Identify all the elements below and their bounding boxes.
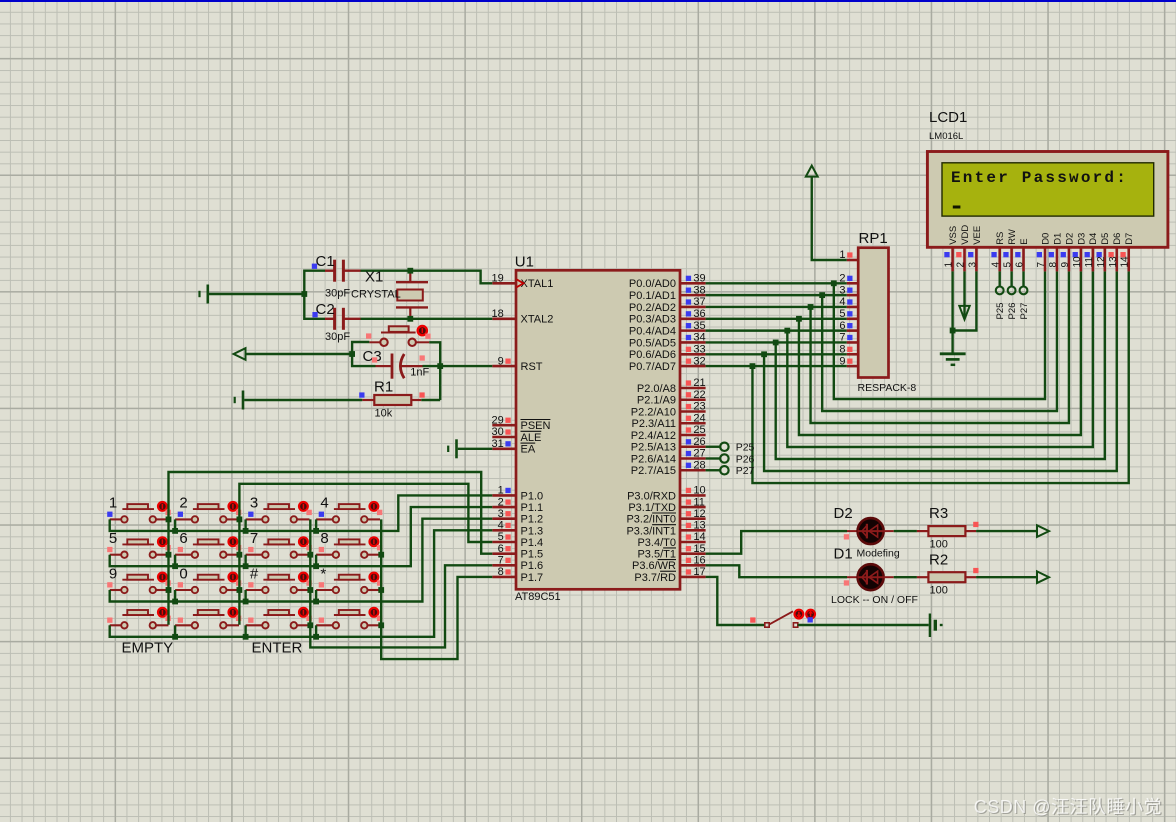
U1 pin 16 P3.6 [632,555,706,573]
wire button drop [174,519,176,531]
svg-text:5: 5 [1003,262,1014,268]
junction [237,552,243,558]
junction [307,552,313,558]
wire P0.0 to RP1 pin 2 [706,282,847,284]
LED D1 [831,546,918,607]
svg-text:P25: P25 [995,303,1006,320]
junction [407,268,413,274]
push button 2 (keypad row 1 col 2) [175,495,241,523]
battery cell [930,614,943,638]
U1 pin 22 P2.1 [637,389,706,407]
svg-text:D7: D7 [1124,233,1135,245]
svg-text:3: 3 [967,262,978,268]
svg-text:2: 2 [956,262,967,268]
wire button drop [315,590,317,602]
svg-text:P27: P27 [736,465,755,477]
svg-text:2: 2 [498,496,504,508]
push button K3 (keypad row 4 col 3) [246,608,312,629]
RP1 pin 6 [839,320,858,332]
wire D1 to R2 [884,576,894,578]
wire button drop [315,555,317,567]
junction [773,340,779,346]
svg-text:VSS: VSS [948,226,959,245]
wire P0.1 to RP1 pin 3 [706,294,847,296]
terminal arrow (right) [1037,525,1049,537]
resistor R2 100 [917,572,976,582]
U1 pin 10 P3.0 [627,485,706,503]
wire LCD VSS to ground [951,271,953,352]
svg-text:R1: R1 [374,379,393,396]
svg-text:19: 19 [492,273,504,285]
wire button drop [174,625,176,637]
svg-text:P3.4/T0: P3.4/T0 [637,537,676,549]
push button K1 (keypad row 4 col 1) [107,608,171,629]
junction [437,363,443,369]
U1 pin 29 PSEN [492,414,551,432]
junction [172,599,178,605]
svg-text:1: 1 [498,485,504,497]
svg-text:39: 39 [693,273,705,285]
wire P0.1 to LCD D1 [822,271,1057,411]
svg-text:P1.0: P1.0 [521,490,544,502]
svg-text:PSEN: PSEN [521,420,551,432]
U1 pin 1 P1.0 [492,485,543,503]
resistor R1 [362,395,421,405]
U1 pin 27 P2.6 [631,448,706,466]
LCD pin 2 VDD [956,225,971,272]
svg-text:P0.4/AD4: P0.4/AD4 [629,326,676,338]
wire P0.3 to LCD D3 [799,271,1081,435]
svg-text:D1: D1 [834,546,853,563]
junction [237,517,243,523]
svg-text:11: 11 [693,496,704,508]
svg-text:XTAL2: XTAL2 [521,314,554,326]
U1 pin 8 P1.7 [492,566,543,584]
U1 pin 9 RST [492,355,542,373]
wire keypad column 1 rail to U1 pin 6 [169,472,493,625]
svg-text:P2.3/A11: P2.3/A11 [632,418,676,430]
RP1 pin 5 [839,308,858,320]
U1 pin 12 P3.2 [626,508,705,526]
junction [243,599,249,605]
wire P0.4 to RP1 pin 6 [706,329,847,331]
ground (LCD) [940,354,966,365]
wire C1 to U1 XTAL1 pin 19 [361,271,493,284]
wire P2.6 to terminal P26 [706,457,721,459]
push button 1 (keypad row 1 col 1) [107,495,171,523]
U1 pin 13 P3.3 [626,520,705,538]
wire LCD pin 4 to node P25 [999,271,1001,286]
svg-text:6: 6 [498,543,504,555]
wire LCD pin 6 to node P27 [1022,271,1024,286]
svg-text:RW: RW [1007,229,1018,245]
svg-text:24: 24 [693,412,705,424]
svg-text:15: 15 [693,543,705,555]
svg-text:RS: RS [995,232,1006,245]
svg-text:2: 2 [179,495,187,512]
svg-text:P0.7/AD7: P0.7/AD7 [629,361,676,373]
svg-text:25: 25 [693,424,705,436]
wire keypad row 4 rail to U1 pin 4 [110,530,493,636]
svg-text:23: 23 [693,401,705,413]
U1 pin 18 XTAL2 [492,308,554,326]
U1 pin 23 P2.2 [631,401,706,419]
reset push button [366,326,431,346]
junction [378,552,384,558]
svg-text:LM016L: LM016L [929,131,963,142]
svg-text:CRYSTAL: CRYSTAL [351,289,401,301]
LCD pin 11 D4 [1084,233,1099,272]
svg-text:3: 3 [498,508,504,520]
svg-text:XTAL1: XTAL1 [521,278,554,290]
wire button drop [244,519,246,531]
svg-text:D0: D0 [1040,233,1051,245]
crystal X1 [351,269,428,319]
svg-text:8: 8 [320,530,328,547]
junction [166,587,172,593]
svg-text:6: 6 [1015,262,1026,268]
svg-text:LCD1: LCD1 [929,109,967,126]
wire reset button left rail [352,342,375,366]
svg-text:6: 6 [179,530,187,547]
svg-text:R3: R3 [929,505,948,522]
svg-text:D5: D5 [1100,233,1111,245]
wire keypad row 3 rail to U1 pin 3 [110,519,493,602]
junction [243,528,249,534]
wire R1 to reset rail [421,399,440,401]
svg-text:EA: EA [521,444,536,456]
svg-text:P1.2: P1.2 [521,514,544,526]
U1 pin 38 P0.1 [629,284,706,302]
wire keypad row 2 rail to U1 pin 2 [110,507,493,566]
wire U1 pin 15 to LED D2 [706,531,847,554]
RP1 pin 4 [839,296,858,308]
wire P0.7 to RP1 pin 9 [706,365,847,367]
svg-text:P2.2/A10: P2.2/A10 [631,406,676,418]
svg-text:LOCK -- ON / OFF: LOCK -- ON / OFF [831,594,918,606]
LCD cursor [953,206,961,209]
wire button drop [174,555,176,567]
U1 pin 37 P0.2 [629,296,706,314]
svg-text:D1: D1 [1052,233,1063,245]
wire P0.4 to LCD D4 [787,271,1093,447]
resistor R3 100 [917,526,976,536]
svg-text:P0.0/AD0: P0.0/AD0 [629,278,676,290]
junction [307,587,313,593]
svg-text:13: 13 [693,520,705,532]
ground (crystal caps) [200,285,208,304]
svg-text:30pF: 30pF [325,331,350,343]
push button 7 (keypad row 2 col 3) [246,530,312,558]
svg-text:1nF: 1nF [410,367,429,379]
svg-text:4: 4 [498,520,504,532]
svg-text:E: E [1019,238,1030,244]
svg-text:P26: P26 [736,453,755,465]
wire ground to C1/C2 rail [209,293,304,295]
junction [172,634,178,640]
junction [166,517,172,523]
wire reset terminal arrow [246,353,353,355]
wire LCD VEE to ground rail [953,271,977,330]
wire button drop [174,590,176,602]
capacitor C2 [312,301,360,343]
svg-text:36: 36 [693,308,705,320]
U1 pin 35 P0.4 [629,320,706,338]
LCD pin 3 VEE [967,226,982,272]
svg-text:P2.0/A8: P2.0/A8 [637,383,676,395]
svg-text:P2.7/A15: P2.7/A15 [631,465,676,477]
svg-text:1: 1 [944,262,955,268]
svg-text:14: 14 [693,531,705,543]
svg-text:17: 17 [693,566,705,578]
node P26 [720,453,754,465]
svg-text:5: 5 [109,530,117,547]
junction [243,634,249,640]
svg-text:P1.4: P1.4 [521,537,544,549]
U1 pin 30 ALE [492,426,542,444]
junction [313,634,319,640]
IC U1 AT89C51 microcontroller [515,254,680,604]
svg-text:RESPACK-8: RESPACK-8 [858,382,917,394]
node P26 [1007,287,1018,320]
LCD pin 13 D6 [1108,233,1123,272]
svg-text:P26: P26 [1007,303,1018,320]
svg-text:P1.6: P1.6 [521,560,544,572]
svg-text:26: 26 [693,436,705,448]
wire button drop [315,625,317,637]
svg-text:9: 9 [109,565,117,582]
push button 4 (keypad row 1 col 4) [316,495,382,523]
svg-text:D3: D3 [1076,233,1087,245]
capacitor C1 [312,253,361,300]
push button * (keypad row 3 col 4) [316,565,382,593]
wire C1/C2 left rail [304,271,325,319]
svg-text:#: # [250,565,259,582]
wire button drop [244,625,246,637]
svg-text:100: 100 [930,539,948,551]
junction [313,563,319,569]
svg-text:18: 18 [492,308,504,320]
RP1 pin 1 [839,249,858,261]
U1 pin 19 XTAL1 [492,273,554,291]
wire D2 to R3 [884,530,894,532]
svg-text:1: 1 [109,495,117,512]
junction [166,552,172,558]
node P25 [720,442,754,454]
LCD pin 9 D2 [1060,233,1075,272]
svg-text:12: 12 [693,508,705,520]
wire P0.6 to RP1 pin 8 [706,353,847,355]
svg-text:P1.1: P1.1 [521,502,544,514]
U1 pin 21 P2.0 [637,377,706,395]
junction [808,304,814,310]
LCD LCD1 LM016L [927,109,1168,247]
wire P0.3 to RP1 pin 5 [706,318,847,320]
wire LCD pin 5 to node P26 [1010,271,1012,286]
svg-text:C2: C2 [316,301,335,318]
junction [761,351,767,357]
svg-text:*: * [320,565,326,582]
wire button drop [244,555,246,567]
junction [243,563,249,569]
svg-text:D2: D2 [1064,233,1075,245]
terminal arrow (right) [1037,571,1049,583]
svg-text:D4: D4 [1088,233,1099,245]
wire button drop [315,519,317,531]
RP1 pin 8 [839,343,858,355]
junction [950,328,956,334]
U1 pin 34 P0.5 [629,332,706,350]
junction [784,328,790,334]
U1 pin 5 P1.4 [492,531,543,549]
push button 5 (keypad row 2 col 1) [107,530,171,558]
svg-text:31: 31 [492,438,504,450]
svg-text:VEE: VEE [972,226,983,245]
svg-text:16: 16 [693,555,705,567]
junction [172,528,178,534]
junction [750,363,756,369]
wire P0.2 to LCD D2 [811,271,1069,423]
svg-text:AT89C51: AT89C51 [515,591,561,603]
svg-text:21: 21 [693,377,705,389]
junction [796,316,802,322]
svg-text:Enter Password:: Enter Password: [951,169,1128,187]
svg-text:10: 10 [693,485,705,497]
LCD pin 5 RW [1003,229,1018,271]
svg-text:P25: P25 [736,442,755,454]
svg-text:P2.5/A13: P2.5/A13 [631,442,676,454]
svg-text:P3.0/RXD: P3.0/RXD [627,490,676,502]
svg-text:D2: D2 [834,505,853,522]
resistor pack RP1 RESPACK-8 [858,230,917,394]
RP1 pin 9 [839,355,858,367]
svg-text:P0.3/AD3: P0.3/AD3 [629,314,676,326]
svg-text:27: 27 [693,448,705,460]
push button 3 (keypad row 1 col 3) [246,495,312,523]
wire switch to battery [798,624,929,626]
U1 pin 24 P2.3 [632,412,706,430]
svg-text:P3.1/TXD: P3.1/TXD [628,502,676,514]
LCD pin 6 E [1015,238,1030,271]
wire VCC to RP1 pin 1 [812,177,847,260]
svg-text:9: 9 [1060,262,1071,268]
svg-text:VDD: VDD [960,225,971,245]
U1 pin 14 P3.4 [637,531,705,549]
svg-text:X1: X1 [365,269,383,286]
power arrow down (VDD) [963,271,965,318]
svg-text:P3.7/RD: P3.7/RD [634,572,676,584]
U1 pin 4 P1.3 [492,520,543,538]
power arrow (VCC) [806,166,818,177]
wire button drop [244,590,246,602]
U1 pin 2 P1.1 [492,496,543,514]
svg-text:7: 7 [250,530,258,547]
U1 pin 36 P0.3 [629,308,706,326]
svg-text:3: 3 [250,495,258,512]
svg-text:P2.1/A9: P2.1/A9 [637,395,676,407]
junction [237,587,243,593]
svg-text:34: 34 [693,332,705,344]
junction [378,622,384,628]
U1 pin 39 P0.0 [629,273,706,291]
LED D2 [834,505,900,560]
svg-text:P1.7: P1.7 [521,572,544,584]
svg-text:P3.5/T1: P3.5/T1 [637,549,676,561]
svg-text:12: 12 [1096,256,1107,268]
wire P0.0 to LCD D0 [834,271,1045,399]
wire reset button right rail [429,342,440,400]
svg-text:9: 9 [498,355,504,367]
terminal arrow (left) [234,348,246,360]
svg-text:ENTER: ENTER [252,640,303,657]
svg-text:37: 37 [693,296,705,308]
svg-text:8: 8 [498,566,504,578]
push button 8 (keypad row 2 col 4) [316,530,382,558]
svg-text:29: 29 [492,414,504,426]
capacitor C3 [363,348,430,379]
wire keypad row 1 rail to U1 pin 1 [110,495,493,531]
LCD pin 7 D0 [1036,233,1051,272]
svg-text:35: 35 [693,320,705,332]
wire P0.2 to RP1 pin 4 [706,306,847,308]
LCD pin 10 D3 [1072,233,1087,272]
U1 pin 33 P0.6 [629,343,706,361]
svg-text:P0.5/AD5: P0.5/AD5 [629,337,676,349]
svg-text:100: 100 [930,585,948,597]
svg-text:7: 7 [498,555,504,567]
LCD pin 4 RS [991,232,1006,272]
push button 0 (keypad row 3 col 2) [175,565,241,593]
RP1 pin 3 [839,284,858,296]
junction [301,291,307,297]
node P27 [1019,287,1030,320]
LCD pin 1 VSS [944,226,959,272]
svg-text:P3.2/INT0: P3.2/INT0 [626,514,676,526]
svg-text:RP1: RP1 [859,230,888,247]
svg-text:4: 4 [320,495,328,512]
switch SW (lock on/off) [750,610,815,628]
svg-text:Modefing: Modefing [857,548,900,560]
svg-text:RST: RST [521,361,543,373]
U1 pin 32 P0.7 [629,355,706,373]
node P27 [720,465,754,477]
svg-text:13: 13 [1108,256,1119,268]
U1 pin 25 P2.4 [631,424,706,442]
svg-text:28: 28 [693,459,705,471]
U1 pin 31 EA [492,438,536,456]
wire P0.7 to LCD D7 [752,271,1128,483]
wire U1 pin 17 to switch [706,577,765,625]
U1 pin 17 P3.7 [634,566,705,584]
wire C2 to U1 XTAL2 pin 18 [361,318,493,320]
svg-text:33: 33 [693,343,705,355]
svg-text:4: 4 [991,262,1002,268]
LCD pin 14 D7 [1120,233,1135,272]
svg-text:8: 8 [1048,262,1059,268]
svg-text:P3.6/WR: P3.6/WR [632,560,676,572]
ground (EA pin) [448,439,456,458]
wire P0.5 to RP1 pin 7 [706,341,847,343]
svg-text:P0.6/AD6: P0.6/AD6 [629,349,676,361]
svg-text:ALE: ALE [521,432,542,444]
node P25 [995,287,1006,320]
svg-text:P0.2/AD2: P0.2/AD2 [629,302,676,314]
junction [313,528,319,534]
svg-text:22: 22 [693,389,705,401]
svg-text:P1.3: P1.3 [521,525,544,537]
svg-text:30: 30 [492,426,504,438]
push button # (keypad row 3 col 3) [246,565,312,593]
